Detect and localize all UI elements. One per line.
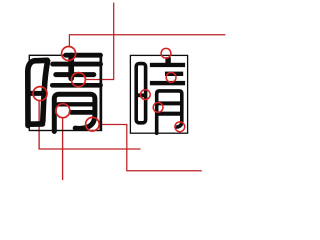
node big glyph sun radical <box>28 60 48 125</box>
node red circle C3 big glyph sun middle bar <box>33 87 47 101</box>
node small glyph sun radical <box>136 64 147 123</box>
node red circle C4 big glyph moon flick <box>56 104 70 118</box>
node small glyph bar B <box>165 72 183 76</box>
node red circle C5 big glyph hook <box>86 117 100 131</box>
node small glyph stem tip <box>165 57 170 63</box>
node red circle C2 small glyph bar B <box>166 73 176 83</box>
node big glyph blue-part top bar <box>66 53 101 58</box>
wire leader line L4 from circle on moon left stroke <box>62 118 64 181</box>
node small glyph top bar <box>150 63 185 67</box>
node big glyph moon box <box>54 94 95 131</box>
node red circle C1 big glyph top <box>62 47 76 61</box>
node big glyph center stem <box>68 56 74 79</box>
node red circle C5 small glyph hook <box>175 122 185 132</box>
node red circle C1 small glyph top <box>161 48 171 58</box>
wire leader line L1 top of big glyph <box>69 35 225 47</box>
node red circle C2 big glyph stem bottom <box>71 73 85 87</box>
node big glyph em-box border <box>29 55 101 130</box>
node big glyph bar B <box>56 72 94 77</box>
node red circle C4 small glyph moon inner bar <box>153 103 163 113</box>
node small glyph bar C <box>150 81 185 85</box>
wire leader line L5 from hook circle <box>99 125 202 171</box>
node small glyph em-box border <box>130 55 187 133</box>
wire leader line L3 from circle on sun radical <box>39 101 140 150</box>
node small glyph moon box <box>157 91 182 133</box>
node big glyph bar A <box>53 62 101 67</box>
node red circle C3 small glyph sun bar junction <box>140 90 150 100</box>
wire leader line L2 vertical to mid circle <box>85 3 113 80</box>
node big glyph bar C <box>52 83 100 88</box>
